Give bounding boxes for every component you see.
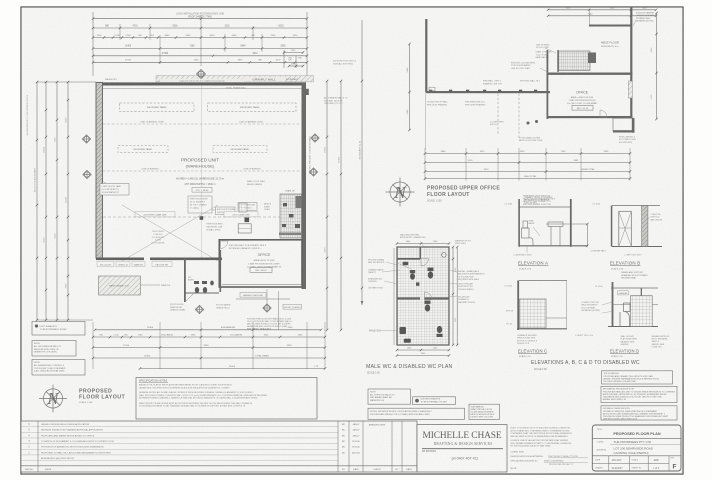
bottom wall small gaps labels [97,262,114,267]
boundary line right of plan [361,20,363,305]
awning extension vertical [277,291,279,330]
recessed panel dashed box row1 left [120,103,195,112]
wc plan top wall detail [397,258,420,260]
elevation C shower grid [520,299,547,328]
wc top dimension line [397,243,449,245]
boxed note hyd [238,203,257,211]
upper office bottom wall [547,116,633,118]
elevation B hatched pier [642,206,648,247]
awning label box [240,293,266,298]
bottom dims extension verticals [92,322,94,369]
top dimension extension verticals [92,12,94,76]
wc right leader lines [449,270,457,272]
bottom dimension line 2 [93,336,325,338]
neighbour wall label GRANFLY HALL [243,77,285,82]
marker below office [263,304,271,312]
top dimension line 4 [93,47,307,49]
ramp leader [141,284,161,286]
elevation B frame [612,205,660,207]
elevation D frame [612,282,614,327]
boxed note beside [216,207,235,215]
top dimension line 1 [93,18,307,20]
warehouse top wall [96,82,306,85]
shown works note box [368,408,465,419]
top dimension line 6 [93,61,307,63]
upper plan long wall [426,91,550,93]
bottom dimension line 1 [95,329,321,331]
gyprock note box [368,389,411,404]
recessed panel dashed box row2 right [213,146,267,153]
warehouse bottom wall mid segment [150,258,222,261]
wc fixtures disabled [403,262,434,286]
amenities low wall [184,292,219,294]
upper plan top dimension line 2 [548,15,656,17]
top dimension line 2 [93,27,307,29]
upper office landing step [613,118,634,131]
elevation D toilet [620,303,630,327]
amenities mid wall [220,250,222,292]
title block bottom grid [592,463,669,465]
hydrant black blob [245,218,250,223]
specification notes box [136,378,317,420]
upper mezz room right wall [630,7,632,118]
upper office door swing bottom [600,110,607,117]
mid grid block [239,203,247,212]
survey marker right upper [311,134,319,142]
top dimension line 5 [93,55,307,57]
revision table column lines [37,421,39,472]
downpipe dots [527,122,530,125]
elevation A frame [519,206,572,208]
upper plan bottom dimension line 2 [425,162,630,164]
upper mezz top extension line [589,9,591,25]
downpipe dashed drops [497,94,499,136]
left dimension top ties [37,81,96,83]
upper mezz room top wall [589,25,632,27]
mech vent note box [601,386,677,402]
north arrow upper [386,178,415,207]
elevation B door with brace [619,211,632,246]
wc vertical partition [420,247,422,259]
office door swing [221,241,229,249]
ducted exhausts box [413,397,456,405]
office RL box [250,268,272,273]
recessed panel dashed box row2 left [118,146,168,153]
revision table rows [21,426,338,428]
warehouse right wall [302,82,307,289]
survey marker left upper [82,135,90,143]
upper plan bottom dimension line 1 [425,153,630,155]
wc mid wall [397,297,420,299]
left dimension vertical line 1 [36,82,38,320]
centreline node square [200,216,204,220]
awning dashed line upper [103,123,301,125]
upper plan bottom dimension line 4 [425,178,630,180]
elevation A right dim [586,224,588,246]
note box window wall [32,341,76,357]
left wall annotation leader [103,181,107,184]
leader from office marker [266,289,268,304]
wc plan left leader lines [386,262,397,265]
upper plan wall columns [429,90,432,92]
right dimension vertical line 2 [340,81,342,330]
revision table outer [21,421,417,472]
dimension line left of upper plan [409,44,411,130]
left dimension vertical line 4 [67,82,69,320]
top-right corner column [303,89,309,95]
section marker above plan [196,69,205,78]
michelle chase rule [422,448,503,450]
upper plan door at left end [429,87,435,91]
bottom dimension line 3 [93,347,325,349]
left wall annotation box [100,184,129,196]
upper stairs left wall [557,50,558,72]
stair block grid [280,194,302,238]
clearance label left [135,212,175,217]
small right sub box [469,404,500,419]
bottom dimension line 4 [93,357,325,359]
wc left boundary line [393,248,395,345]
bracing diagonal 2 [122,205,218,261]
wc plan bottom dimension lines [397,349,449,351]
warehouse top wall inner face line [103,88,302,90]
upper office separating wall [547,73,633,75]
awning dashed line mid [103,170,301,172]
clearance label right [224,212,258,217]
wc entry basin circle [442,253,447,258]
amenities door diag [185,293,194,302]
upper stairs [559,51,591,71]
elevation D shower grid [631,296,653,327]
elevation D grab rail post [641,288,642,327]
upper office RL box [572,106,593,111]
top dimension right sub-cluster [283,50,285,68]
high clearance dashed line [103,216,301,218]
amenities fixtures [194,281,214,293]
wc plan tiled floor [397,247,449,345]
warehouse bottom wall left段 [96,258,144,261]
survey marker left lower [83,170,91,178]
revision table header row [21,465,417,467]
right dimension vertical line 1 [326,81,328,330]
upper plan left wall [425,19,427,93]
wc basin leader lines [397,263,412,269]
note box duct left [32,322,85,336]
neighbour wall tiny note [160,79,244,82]
hydrant leaders [244,210,246,217]
north arrow main [39,385,67,413]
elevation D leader lines [602,302,612,305]
elevation C frame [519,280,567,282]
wc door swing mid [425,292,433,300]
wc plan right dimension line [452,247,454,345]
warehouse left wall hatched [96,82,103,258]
awning extent box [283,304,302,309]
bracing diagonal 1 [122,205,218,261]
wc top door swing [421,259,429,267]
upper stairs dark core [588,53,596,64]
upper plan bottom dimension line 3 [425,171,630,173]
survey marker right lower [309,168,317,176]
hydraulic note box [601,406,677,420]
upper dims extension verticals [424,148,426,181]
elevation A fixtures [522,221,588,246]
elevation D grabrail label box [618,291,629,295]
left dimension vertical line 2 [45,82,47,320]
recessed panel dashed box row1 right [208,103,297,112]
left dimension vertical line 3 [56,82,58,320]
lunch room rect [238,224,251,233]
upper office left wall [547,50,549,119]
stair block dark core [296,196,302,208]
bottom dimension line 5 [140,368,325,370]
wc fixtures male [400,301,443,343]
elevation D diagonal rail [641,321,650,327]
awning line below office [222,284,301,286]
office room [219,240,302,287]
gatic pit boxed note [188,196,212,213]
marker below amenities [195,305,203,313]
leader lines upper plan [545,48,556,53]
ramp hatched rectangle [99,276,141,295]
upper office window hatch on right wall [628,81,632,98]
upper plan right dimension line [656,13,658,119]
note box dimensions [32,360,85,376]
top dimension line 3 [93,37,307,39]
title block outer [592,425,681,471]
pvc awning small box [192,188,212,193]
upper plan top dimension line 1 [548,9,656,11]
amenities west wall [184,258,186,302]
elevation D mid rail [614,304,659,306]
existing neighbour wall hatched strip [156,76,314,82]
warehouse centreline [201,86,203,258]
second awning line [236,298,290,300]
tile note box [602,371,673,384]
michelle chase block border [417,425,507,473]
